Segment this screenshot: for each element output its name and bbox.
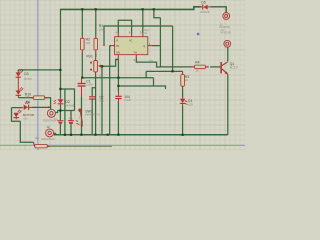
wire node y89 xyxy=(61,89,75,111)
svg-text:D2: D2 xyxy=(65,100,69,104)
wire D4 cathode to J1 column xyxy=(31,106,50,108)
resistor R1 xyxy=(94,35,98,53)
wire D3 chain to R10 xyxy=(18,97,33,99)
svg-text:RV1: RV1 xyxy=(86,54,93,58)
wire node y71.4 to R3 xyxy=(146,70,182,72)
svg-text:10u: 10u xyxy=(99,98,104,102)
capacitor C4 xyxy=(68,121,74,123)
wire motor loop xyxy=(12,108,34,143)
wire cap C4 leads xyxy=(70,111,72,135)
svg-text:0.1uF: 0.1uF xyxy=(124,98,131,102)
LED D1 xyxy=(180,99,188,106)
svg-text:BC337: BC337 xyxy=(230,66,239,70)
wire stub x153.5 xyxy=(153,78,155,86)
IC pin names xyxy=(116,39,145,54)
battery B1 xyxy=(57,121,63,123)
IC pin numbers xyxy=(110,31,151,62)
svg-text:R4: R4 xyxy=(195,60,199,64)
wire node y110 xyxy=(58,110,75,112)
LED D3b lower xyxy=(16,79,24,98)
terminal J6 right xyxy=(224,40,231,48)
wire LED D1 to bus xyxy=(182,106,184,135)
LED motor indicator xyxy=(13,109,21,119)
svg-text:D5: D5 xyxy=(201,0,205,4)
svg-text:J1: J1 xyxy=(48,105,52,109)
wire IC pin1 column with C3 inline xyxy=(117,59,119,135)
wire battery leads xyxy=(59,111,61,135)
wire terminal J6 to Q1 collector xyxy=(227,47,229,61)
svg-text:J2: J2 xyxy=(46,125,50,129)
wire output pin3 xyxy=(152,9,161,67)
junction (71,134.8) xyxy=(70,134,72,136)
wire J2 to bus xyxy=(54,133,56,134)
junction (153.8,9.3) xyxy=(153,8,155,10)
sheet border horizontal xyxy=(0,144,245,146)
junction (118.4,134.7) xyxy=(117,134,119,136)
svg-text:D1: D1 xyxy=(188,99,192,103)
svg-text:<D>: <D> xyxy=(23,117,29,121)
junction (95.7,9.3) xyxy=(95,8,97,10)
switch SW1 xyxy=(76,109,83,127)
junction (118.4,77.7) xyxy=(117,77,119,79)
resistor R10 xyxy=(31,96,47,100)
resistor R4 xyxy=(193,65,209,69)
svg-text:Q: Q xyxy=(143,45,145,48)
wire RV1 wiper net xyxy=(102,59,118,134)
wire R1 top lead xyxy=(95,9,97,35)
wire node x64.9 xyxy=(64,89,66,135)
junction (81.4,134.7) xyxy=(80,134,82,136)
wire left branch down from rail xyxy=(60,9,62,98)
svg-text:VC: VC xyxy=(129,39,133,42)
svg-text:1N4148: 1N4148 xyxy=(200,10,210,14)
svg-text:1k: 1k xyxy=(195,69,199,73)
dangling wire end mark xyxy=(103,44,105,46)
capacitor C1 xyxy=(78,78,86,96)
svg-text:10k: 10k xyxy=(86,41,91,45)
wire stub x146 xyxy=(145,71,147,77)
svg-text:POSITIVO: POSITIVO xyxy=(43,119,55,123)
wire ground bus xyxy=(54,134,228,136)
svg-text:1.0uF: 1.0uF xyxy=(86,82,93,86)
wire Q1 emitter to bus xyxy=(227,74,229,134)
resistor R6 xyxy=(33,142,49,148)
wire RV1 bottom to bus xyxy=(95,75,97,135)
svg-text:MOTOR: MOTOR xyxy=(23,113,35,117)
terminal J5 top right xyxy=(223,11,230,19)
junction (95.5,134.7) xyxy=(94,134,96,136)
wire R10 right to J1 xyxy=(45,98,51,110)
LED D3 xyxy=(16,69,24,79)
svg-text:BY407: BY407 xyxy=(24,77,32,81)
junction (101.9,66.2) xyxy=(101,65,103,67)
wire C1 bottom to ground bus xyxy=(81,96,83,135)
svg-text:D3: D3 xyxy=(24,72,28,76)
wire R1 to RV1 xyxy=(95,53,97,57)
junction (82.3,9.3) xyxy=(81,8,83,10)
svg-text:10k: 10k xyxy=(98,74,103,78)
transistor Q1 xyxy=(220,62,228,75)
junction (64.9,134.8) xyxy=(64,134,66,136)
sheet border vertical xyxy=(37,0,39,150)
wire rail to pin VCC xyxy=(142,9,144,33)
svg-text:7(0): 7(0) xyxy=(149,60,153,63)
wire R4 to Q1 base xyxy=(210,66,220,68)
junction (82.2,77.7) xyxy=(81,77,83,79)
svg-text:R: R xyxy=(116,39,118,42)
wire D3 top to left branch xyxy=(18,70,60,72)
wire R6 right lead xyxy=(47,145,112,147)
resistor R3 xyxy=(181,71,185,89)
junction (182.6,134.8) xyxy=(182,134,184,136)
svg-text:GN: GN xyxy=(116,52,120,55)
origin marker blue dot xyxy=(197,33,199,35)
IC U1 555 xyxy=(111,34,152,60)
wire R3 to LED D1 xyxy=(182,89,184,98)
wire J1 jog xyxy=(56,111,58,113)
wire IC pin6 jog xyxy=(136,58,160,67)
wire R2 bottom to node xyxy=(81,53,83,78)
wire R2 top lead xyxy=(81,9,83,35)
wire dangling from y26 xyxy=(104,26,173,45)
resistor R2 xyxy=(81,35,85,53)
svg-text:TR: TR xyxy=(116,45,120,48)
svg-text:47u: 47u xyxy=(69,116,74,120)
svg-text:10k: 10k xyxy=(99,27,104,31)
junction (172.5,71.3) xyxy=(171,70,173,72)
wire node y86 xyxy=(119,86,166,89)
svg-text:R6: R6 xyxy=(35,136,39,140)
wire below D2 xyxy=(60,105,62,111)
wire VCC top rail xyxy=(60,7,201,10)
wire C2 bottom xyxy=(91,99,93,134)
junction (142.6,9.3) xyxy=(142,8,144,10)
svg-text:TH: TH xyxy=(134,52,138,55)
capacitor C2 xyxy=(89,97,95,99)
junction (60.4,110.5) xyxy=(59,109,61,111)
junction (60.4,88.9) xyxy=(59,88,61,90)
wire output to R4 xyxy=(160,66,192,68)
svg-text:D4: D4 xyxy=(26,100,30,104)
LED D4 xyxy=(24,101,32,110)
svg-text:LED: LED xyxy=(188,102,193,106)
svg-text:47R: 47R xyxy=(25,96,30,99)
junction (118.4,85.9) xyxy=(117,85,119,87)
svg-text:1N4148: 1N4148 xyxy=(65,103,75,107)
wire IC pin2 net down to bus xyxy=(110,46,112,135)
terminal J1 xyxy=(47,109,55,117)
potentiometer RV1 xyxy=(90,57,102,75)
svg-text:NP3(TV5): NP3(TV5) xyxy=(220,31,231,34)
wire long node y77.8 xyxy=(82,77,153,79)
junction (60.4,69.9) xyxy=(59,69,61,71)
junction (107.7,134.7) xyxy=(107,134,109,136)
wire arch pin4 to pin8 xyxy=(118,20,131,33)
terminal J2 xyxy=(46,129,54,137)
svg-text:NEGATIVO: NEGATIVO xyxy=(41,137,54,141)
capacitor C3 104 xyxy=(115,92,121,102)
wire x172.6 vertical xyxy=(172,26,174,71)
wire C2 top corner xyxy=(92,88,96,96)
svg-text:SW-SPDT+C: SW-SPDT+C xyxy=(85,112,100,116)
wire D5 to terminal J5 xyxy=(210,7,226,13)
diode D5 xyxy=(200,5,210,10)
diode D2 xyxy=(54,98,64,105)
